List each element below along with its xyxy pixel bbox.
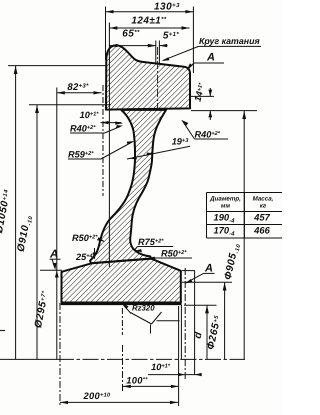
wheel hub (hatched) bbox=[62, 259, 181, 303]
dia 910 extension line bbox=[29, 104, 111, 106]
dia 1050 dim line bbox=[15, 66, 17, 359]
dia 905 dim line bbox=[243, 111, 245, 359]
hub-top-corner extension (left) bbox=[40, 269, 62, 271]
svg-text:Масса,: Масса, bbox=[253, 196, 274, 203]
dim 100 bbox=[123, 385, 179, 387]
dia 910 dim line bbox=[36, 105, 38, 359]
hub bore thick bottom line bbox=[61, 302, 182, 305]
dia 905 extension line bbox=[191, 110, 257, 112]
wheel web (disc, hatched) bbox=[90, 110, 166, 263]
surface finish Rz320 symbol under hub bbox=[122, 305, 179, 335]
dim 5+1 bbox=[156, 41, 168, 64]
dia 265 extension line bbox=[182, 281, 232, 283]
dim 124±1 bbox=[109, 23, 189, 268]
dia 295 dim line bbox=[56, 88, 58, 360]
dia1050 arrow bbox=[14, 66, 18, 74]
hub corner extension bbox=[182, 270, 195, 272]
svg-text:мм: мм bbox=[221, 203, 231, 210]
axis centreline bbox=[0, 358, 58, 360]
rolling circle centreline bbox=[157, 47, 159, 111]
svg-text:457: 457 bbox=[253, 212, 270, 223]
dim 82+3 bbox=[57, 85, 103, 196]
arrows for diameter lines bbox=[14, 66, 246, 314]
dia 295 up arrow bbox=[55, 271, 59, 278]
svg-text:Rz320: Rz320 bbox=[132, 304, 155, 313]
dim 200+10 bbox=[60, 401, 178, 403]
d (bore) dim line bbox=[206, 305, 208, 359]
leader to tread bbox=[164, 46, 199, 60]
d arrow bbox=[205, 305, 209, 313]
axis centreline (dash-dot part) bbox=[58, 358, 245, 360]
left margin mark bbox=[0, 330, 5, 332]
dim 14+1 (rim depth, rotated) bbox=[191, 88, 215, 120]
dim 65 bbox=[109, 45, 155, 47]
svg-text:Круг катания: Круг катания bbox=[199, 36, 260, 46]
dia 265 dim line bbox=[224, 283, 226, 360]
100/200 right extension bbox=[178, 306, 180, 406]
dia905 arrow bbox=[242, 111, 246, 119]
svg-text:кг: кг bbox=[260, 203, 267, 210]
dim 130+3 bbox=[106, 7, 194, 74]
wheel rim cross-section (hatched) bbox=[62, 45, 191, 302]
dia 1050 extension line bbox=[8, 65, 107, 67]
svg-text:A: A bbox=[204, 263, 213, 275]
10 dim right extension bbox=[194, 271, 196, 375]
hub face extension bbox=[180, 305, 182, 360]
d extension line bbox=[184, 304, 217, 306]
svg-text:Диаметр,: Диаметр, bbox=[209, 196, 241, 203]
svg-text:466: 466 bbox=[253, 225, 270, 236]
dash-dot hub line bbox=[184, 268, 186, 380]
dim 10+1 (web offset) bbox=[101, 122, 122, 124]
dim 10+1 bottom bbox=[148, 374, 200, 376]
dia910 arrow bbox=[35, 105, 39, 113]
bottom extension lines bbox=[60, 303, 123, 406]
dia265 arrow bbox=[223, 282, 227, 290]
svg-text:A: A bbox=[206, 52, 215, 64]
